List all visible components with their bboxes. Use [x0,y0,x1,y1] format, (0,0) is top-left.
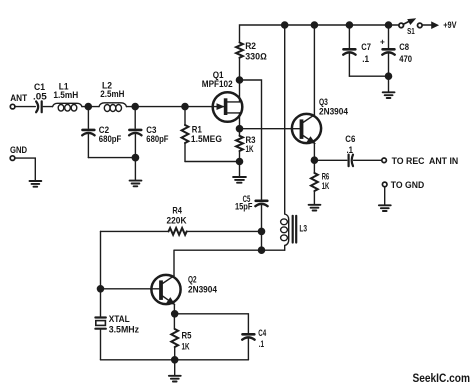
svg-text:TO REC ANT IN: TO REC ANT IN [392,156,459,167]
svg-text:L3: L3 [299,224,307,234]
svg-text:Q3: Q3 [319,97,328,107]
wire emitter junction to C4 [175,314,249,333]
svg-text:1K: 1K [246,144,254,154]
capacitor C4 [242,334,254,360]
wire R3 junction to ground [239,162,241,177]
wire C7 bottom to C8 bottom [349,75,388,77]
node junction emitter/R5/C4 [172,311,178,317]
node TO REC ANT IN terminal [382,158,387,163]
+9V arrowhead [432,22,438,28]
wire S1 to +9V arrow [423,24,433,26]
svg-text:680pF: 680pF [146,134,169,144]
switch S1 [399,19,422,28]
svg-text:1.5mH: 1.5mH [53,90,78,100]
ground below R5 [169,376,181,382]
node junction source/R3/base [236,126,242,132]
svg-text:C7: C7 [361,42,371,52]
svg-text:680pF: 680pF [99,134,122,144]
svg-text:C1: C1 [34,82,45,92]
wire TO GND terminal to ground [384,187,386,205]
svg-text:SeekIC.com: SeekIC.com [413,373,471,385]
node junction R3/R1 ground [236,158,242,164]
capacitor C2 [82,107,94,158]
svg-text:2N3904: 2N3904 [319,106,348,116]
svg-text:1K: 1K [322,181,330,191]
node junction drain/C5 [236,77,242,83]
svg-text:15pF: 15pF [235,202,253,212]
svg-text:S1: S1 [407,26,415,36]
svg-text:Q2: Q2 [188,275,197,285]
node junction emitter/C6 [311,157,317,163]
svg-text:R2: R2 [245,41,256,51]
wire Q2 collector up to tank line [173,250,175,276]
node junction rail C7 [346,22,352,28]
svg-text:C4: C4 [258,328,266,338]
svg-text:MPF102: MPF102 [202,79,233,89]
svg-text:220K: 220K [167,216,187,226]
svg-text:1K: 1K [182,342,190,352]
wire Q2 emitter down [173,304,175,329]
svg-text:C8: C8 [399,42,409,52]
wire R5 to bottom rail [174,347,176,360]
node junction C5/L3/collector [258,247,264,253]
resistor R3 [236,129,243,162]
capacitor C6 [349,155,353,167]
wire Q1 source down [239,113,241,129]
wire base line Q3 [240,128,300,130]
node junction C7/C8 ground [385,73,391,79]
wire rail to L3 [284,25,286,214]
node junction C3 [132,104,138,110]
capacitor C8 [382,25,394,76]
transistor Q2 [101,275,181,304]
svg-text:470: 470 [399,54,412,64]
wire C2 bottom to C3 bottom [88,157,135,159]
wire Q3 collector to rail [313,25,315,115]
resistor R2 [236,43,243,58]
wire R4 left down to Q2 base branch [100,231,102,316]
node junction C5/R4 [258,228,264,234]
wire ANT to C1 [15,106,35,108]
resistor R5 [171,329,178,347]
svg-text:ANT: ANT [10,93,27,103]
svg-text:1.5MEG: 1.5MEG [191,134,222,144]
capacitor C5 [255,201,267,250]
capacitor C3 [129,107,141,158]
ground below TO GND [379,205,391,211]
crystal XTAL [95,318,105,360]
node junction L1/L2/C2 [85,104,91,110]
svg-text:R6: R6 [322,172,330,182]
svg-text:GND: GND [10,145,28,155]
svg-text:TO GND: TO GND [391,180,425,191]
svg-text:3.5MHz: 3.5MHz [109,325,140,335]
svg-text:.1: .1 [259,339,264,349]
node TO GND terminal [382,182,387,187]
wire R5 junction to ground [174,360,176,375]
ground below R3 [233,177,246,183]
svg-text:+9V: +9V [443,20,456,30]
node junction C3 ground [132,154,138,160]
transistor Q3 [292,114,321,143]
node junction rail C8 [385,22,391,28]
node GND terminal [10,156,15,161]
capacitor C7 [343,25,355,76]
svg-text:R4: R4 [172,206,182,216]
node junction R1 [182,104,188,110]
svg-text:.1: .1 [347,145,354,155]
wire C1 to L1 [43,106,52,108]
transistor Q1 [213,92,243,122]
svg-text:+: + [380,38,385,47]
wire collector line Q2 to L3 bottom [175,249,285,251]
node junction rail L3 [282,22,288,28]
svg-text:C6: C6 [345,134,355,144]
wire emitter junction to C6 [314,159,346,161]
resistor R4 [101,228,262,235]
svg-text:R5: R5 [182,331,192,341]
wire R2 to +9V rail [240,25,399,43]
svg-text:330Ω: 330Ω [245,52,267,62]
wire bottom rail [101,359,249,361]
ground below GND terminal [30,181,42,187]
wire L1 to L2 [82,106,99,108]
node ANT terminal [10,104,15,109]
ground below C8 [383,92,395,98]
inductor L3 [281,214,289,250]
inductor L1 [53,103,83,111]
node junction base/XTAL [97,286,103,292]
wire Q3 emitter down [313,143,315,173]
capacitor C1 [36,101,42,112]
wire C6 to TO REC terminal [354,159,382,161]
svg-text:.1: .1 [362,54,369,64]
node junction R5 ground [172,357,178,363]
ground below C3 [130,181,142,187]
resistor R1 [182,107,189,162]
wire L2 to Q1 gate [127,106,214,108]
svg-text:.05: .05 [33,92,47,102]
wire C8 junction to ground [388,76,390,91]
resistor R6 [311,173,318,191]
ground below R6 [309,205,321,211]
wire C3 junction to ground [134,158,136,180]
wire drain junction to C5 [240,80,262,200]
wire R6 to ground [313,191,315,204]
inductor L2 [99,103,127,112]
svg-text:XTAL: XTAL [109,314,130,324]
wire GND terminal to ground [15,158,36,180]
node junction rail collector [311,22,317,28]
wire Q1 drain up / R2 line [239,58,241,102]
wire R1 bottom to R3 bottom [185,161,239,163]
core bars L3 [293,216,297,243]
svg-text:2.5mH: 2.5mH [100,89,124,99]
svg-text:2N3904: 2N3904 [188,285,217,295]
